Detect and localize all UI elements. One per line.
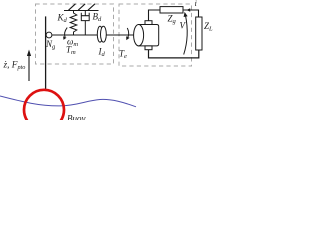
wire: bottom return <box>149 50 199 58</box>
label Buoy <box>67 113 86 123</box>
dashed box: mechanical PTO subsystem <box>36 4 114 64</box>
wire: top with current arrowhead <box>183 8 199 17</box>
label omega_m <box>67 37 78 49</box>
label z-dot, F_pto <box>3 61 26 72</box>
buoy <box>24 90 64 130</box>
heave arrow z-dot, F_pto <box>27 50 31 82</box>
shaft <box>52 34 134 36</box>
water surface wave <box>0 96 136 107</box>
label B_d <box>93 12 103 24</box>
label I_d <box>98 47 106 59</box>
resistor Z_g <box>160 7 183 13</box>
damper B_d <box>81 11 89 36</box>
flywheel inertia I_d <box>97 26 106 42</box>
buoy rod (rack) <box>45 16 47 89</box>
spring K_d <box>70 11 77 36</box>
label N_g <box>45 39 56 51</box>
dashed box: generator subsystem <box>119 4 192 66</box>
label K_d <box>57 13 68 25</box>
label V <box>180 21 187 31</box>
label Z_g <box>168 14 177 26</box>
voltage arrow V <box>184 12 188 55</box>
label i <box>195 0 198 8</box>
generator body <box>134 21 159 50</box>
label T_m <box>66 45 76 57</box>
svg-text:Buoy: Buoy <box>67 113 86 120</box>
fixed support ceiling with hatching <box>64 4 99 11</box>
resistor Z_L <box>196 17 202 50</box>
label Z_L <box>204 21 213 33</box>
pinion gear N_g <box>46 32 52 38</box>
label T_e <box>119 49 127 61</box>
torque arrow T_e <box>126 28 129 40</box>
wire: generator top terminal to Z_g <box>149 10 161 21</box>
rotation arrow omega_m / T_m <box>63 28 67 40</box>
